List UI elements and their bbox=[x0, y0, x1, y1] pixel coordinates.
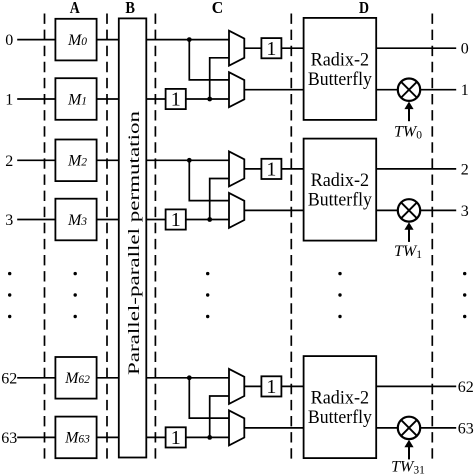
parallel-parallel permutation block bbox=[119, 18, 147, 457]
wire lower mux to butterfly (group 2) bbox=[244, 209, 303, 211]
wire butterfly to multiplier (group 3) bbox=[376, 427, 397, 429]
svg-text:1: 1 bbox=[171, 89, 181, 111]
delay register 1 (row 1) bbox=[166, 89, 186, 109]
delay register 1 (group 2 upper output) bbox=[261, 159, 281, 179]
memory M62 bbox=[55, 357, 96, 399]
wire M1 to permutation bbox=[97, 98, 119, 100]
svg-text:1: 1 bbox=[266, 376, 276, 398]
svg-text:Radix-2: Radix-2 bbox=[311, 49, 370, 70]
node junction on row 0 bbox=[187, 37, 192, 42]
delay register 1 (row 63) bbox=[166, 427, 186, 447]
wire lower mux to butterfly (group 3) bbox=[244, 427, 303, 429]
svg-text:Butterfly: Butterfly bbox=[308, 407, 372, 428]
wire delay to butterfly (group 3) bbox=[281, 385, 303, 387]
svg-text:63: 63 bbox=[458, 420, 474, 437]
wire butterfly to multiplier (group 2) bbox=[376, 209, 397, 211]
wire permutation to mux (row 0) bbox=[146, 39, 229, 41]
svg-text:62: 62 bbox=[1, 370, 17, 387]
wire input 1 to M1 bbox=[17, 98, 55, 100]
wire butterfly to multiplier (group 1) bbox=[376, 89, 397, 91]
dashed boundary line 5 (right of D) bbox=[431, 14, 433, 462]
memory M63 bbox=[55, 417, 96, 459]
wire crossover row 3 up to upper mux bbox=[210, 179, 229, 220]
wire M63 to permutation bbox=[97, 436, 119, 438]
svg-text:1: 1 bbox=[5, 92, 13, 109]
svg-text:1: 1 bbox=[461, 82, 469, 99]
svg-text:1: 1 bbox=[266, 38, 276, 60]
radix-2 butterfly U3 bbox=[304, 356, 377, 458]
wire butterfly to output 2 bbox=[376, 168, 456, 170]
wire butterfly to output 0 bbox=[376, 47, 456, 49]
svg-text:Radix-2: Radix-2 bbox=[311, 170, 370, 191]
svg-text:3: 3 bbox=[5, 212, 13, 229]
memory M1 bbox=[55, 78, 96, 120]
svg-text:2: 2 bbox=[461, 161, 469, 178]
svg-text:D: D bbox=[359, 0, 369, 17]
wire input 3 to M3 bbox=[17, 219, 55, 221]
wire butterfly to output 62 bbox=[376, 385, 456, 387]
wire input 2 to M2 bbox=[17, 159, 55, 161]
twiddle arrow into multiplier (group 2) bbox=[408, 228, 410, 242]
svg-text:1: 1 bbox=[171, 427, 181, 449]
multiplier TW0 (circle with X) bbox=[398, 79, 420, 101]
wire multiplier to output 63 bbox=[421, 427, 456, 429]
svg-text:1: 1 bbox=[171, 209, 181, 231]
node junction on row 2 bbox=[187, 158, 192, 163]
wire permutation to delay (row 1) bbox=[146, 98, 165, 100]
wire crossover row 1 up to upper mux bbox=[210, 58, 229, 99]
wire multiplier to output 3 bbox=[421, 209, 456, 211]
radix-2 butterfly U2 bbox=[304, 139, 377, 241]
multiplier TW31 (circle with X) bbox=[398, 417, 420, 439]
multiplexer lower (group 1) bbox=[229, 72, 244, 107]
svg-text:63: 63 bbox=[1, 430, 17, 447]
node junction on row 63 bbox=[207, 435, 212, 440]
memory M0 bbox=[55, 19, 96, 61]
svg-text:0: 0 bbox=[461, 41, 469, 58]
svg-text:3: 3 bbox=[461, 203, 469, 220]
svg-text:Butterfly: Butterfly bbox=[308, 190, 372, 211]
svg-text:Butterfly: Butterfly bbox=[308, 69, 372, 90]
node junction on row 3 bbox=[207, 217, 212, 222]
multiplier TW1 (circle with X) bbox=[398, 199, 420, 221]
wire lower mux to butterfly (group 1) bbox=[244, 89, 303, 91]
twiddle arrow into multiplier (group 1) bbox=[408, 107, 410, 121]
wire M2 to permutation bbox=[97, 159, 119, 161]
delay register 1 (group 1 upper output) bbox=[261, 38, 281, 58]
wire delay to mux (row 1) bbox=[186, 98, 229, 100]
dashed boundary line 4 (C-D) bbox=[290, 14, 292, 462]
svg-text:2: 2 bbox=[5, 153, 13, 170]
wire M62 to permutation bbox=[97, 377, 119, 379]
wire permutation to delay (row 63) bbox=[146, 436, 165, 438]
wire delay to mux (row 63) bbox=[186, 436, 229, 438]
svg-text:C: C bbox=[212, 0, 224, 17]
wire crossover row 2 down to lower mux bbox=[189, 160, 229, 200]
wire delay to butterfly (group 2) bbox=[281, 168, 303, 170]
multiplexer upper (group 2) bbox=[229, 151, 244, 186]
multiplexer upper (group 3) bbox=[229, 369, 244, 404]
wire M3 to permutation bbox=[97, 219, 119, 221]
wire input 63 to M63 bbox=[17, 436, 55, 438]
svg-text:Radix-2: Radix-2 bbox=[311, 388, 370, 409]
svg-text:1: 1 bbox=[266, 159, 276, 181]
svg-text:62: 62 bbox=[458, 379, 474, 396]
svg-text:Parallel-parallel permutation: Parallel-parallel permutation bbox=[126, 111, 143, 375]
wire permutation to delay (row 3) bbox=[146, 219, 165, 221]
wire input 62 to M62 bbox=[17, 377, 55, 379]
svg-text:A: A bbox=[70, 0, 81, 17]
radix-2 butterfly U1 bbox=[304, 18, 377, 120]
wire upper mux to delay (group 1) bbox=[244, 47, 261, 49]
dashed boundary line 1 (left of A) bbox=[44, 14, 46, 462]
dashed boundary line 3 (B-C) bbox=[154, 14, 156, 462]
twiddle arrow into multiplier (group 3) bbox=[408, 446, 410, 460]
wire multiplier to output 1 bbox=[421, 89, 456, 91]
svg-text:B: B bbox=[125, 0, 135, 17]
multiplexer lower (group 3) bbox=[229, 410, 244, 445]
multiplexer lower (group 2) bbox=[229, 193, 244, 228]
wire upper mux to delay (group 2) bbox=[244, 168, 261, 170]
node junction on row 1 bbox=[207, 97, 212, 102]
wire upper mux to delay (group 3) bbox=[244, 385, 261, 387]
wire crossover row 63 up to upper mux bbox=[210, 396, 229, 437]
delay register 1 (group 3 upper output) bbox=[261, 376, 281, 396]
memory M2 bbox=[55, 140, 96, 182]
wire permutation to mux (row 2) bbox=[146, 159, 229, 161]
wire delay to butterfly (group 1) bbox=[281, 47, 303, 49]
svg-text:0: 0 bbox=[5, 32, 13, 49]
wire permutation to mux (row 62) bbox=[146, 377, 229, 379]
wire crossover row 0 down to lower mux bbox=[189, 40, 229, 80]
memory M3 bbox=[55, 199, 96, 241]
wire M0 to permutation bbox=[97, 39, 119, 41]
wire crossover row 62 down to lower mux bbox=[189, 378, 229, 418]
wire input 0 to M0 bbox=[17, 39, 55, 41]
wire delay to mux (row 3) bbox=[186, 219, 229, 221]
dashed boundary line 2 (A-B) bbox=[106, 14, 108, 462]
multiplexer upper (group 1) bbox=[229, 31, 244, 66]
node junction on row 62 bbox=[187, 375, 192, 380]
delay register 1 (row 3) bbox=[166, 209, 186, 229]
vertical ellipsis dots (continuation) bbox=[8, 272, 11, 275]
